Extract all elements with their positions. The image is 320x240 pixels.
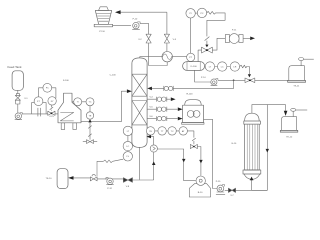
svg-text:FCV: FCV (50, 116, 55, 118)
svg-text:LC: LC (221, 66, 224, 68)
svg-text:LR: LR (234, 66, 237, 68)
svg-text:D-100: D-100 (191, 66, 198, 68)
svg-text:FC: FC (46, 88, 49, 90)
svg-text:TK-10: TK-10 (46, 178, 53, 180)
svg-text:LC: LC (126, 146, 129, 148)
svg-text:V-3: V-3 (173, 39, 177, 41)
svg-text:P-12: P-12 (107, 188, 112, 190)
svg-text:Feed Tank: Feed Tank (8, 65, 22, 69)
svg-text:V-1: V-1 (24, 98, 28, 100)
svg-text:V-2: V-2 (138, 39, 142, 41)
svg-text:R-100: R-100 (187, 93, 194, 95)
svg-text:V-7: V-7 (230, 195, 234, 197)
svg-text:E-10: E-10 (232, 143, 237, 145)
svg-text:V-8: V-8 (126, 186, 130, 188)
svg-text:V-5: V-5 (149, 106, 153, 108)
svg-text:B-10: B-10 (198, 192, 203, 194)
svg-text:P-11: P-11 (232, 29, 237, 31)
svg-text:TC: TC (89, 102, 92, 104)
svg-text:P-15: P-15 (216, 181, 221, 183)
svg-text:TK-11: TK-11 (293, 86, 300, 88)
svg-text:P-10: P-10 (133, 19, 138, 21)
svg-text:P-14: P-14 (201, 77, 206, 79)
svg-text:TK-12: TK-12 (286, 136, 293, 138)
svg-text:V-4: V-4 (149, 96, 153, 98)
svg-text:F-100: F-100 (63, 80, 69, 82)
svg-text:CT-10: CT-10 (99, 31, 106, 33)
svg-text:PC: PC (200, 13, 203, 15)
svg-text:TC: TC (171, 131, 174, 133)
svg-text:V-6: V-6 (149, 116, 153, 118)
svg-text:C-100: C-100 (110, 74, 117, 76)
